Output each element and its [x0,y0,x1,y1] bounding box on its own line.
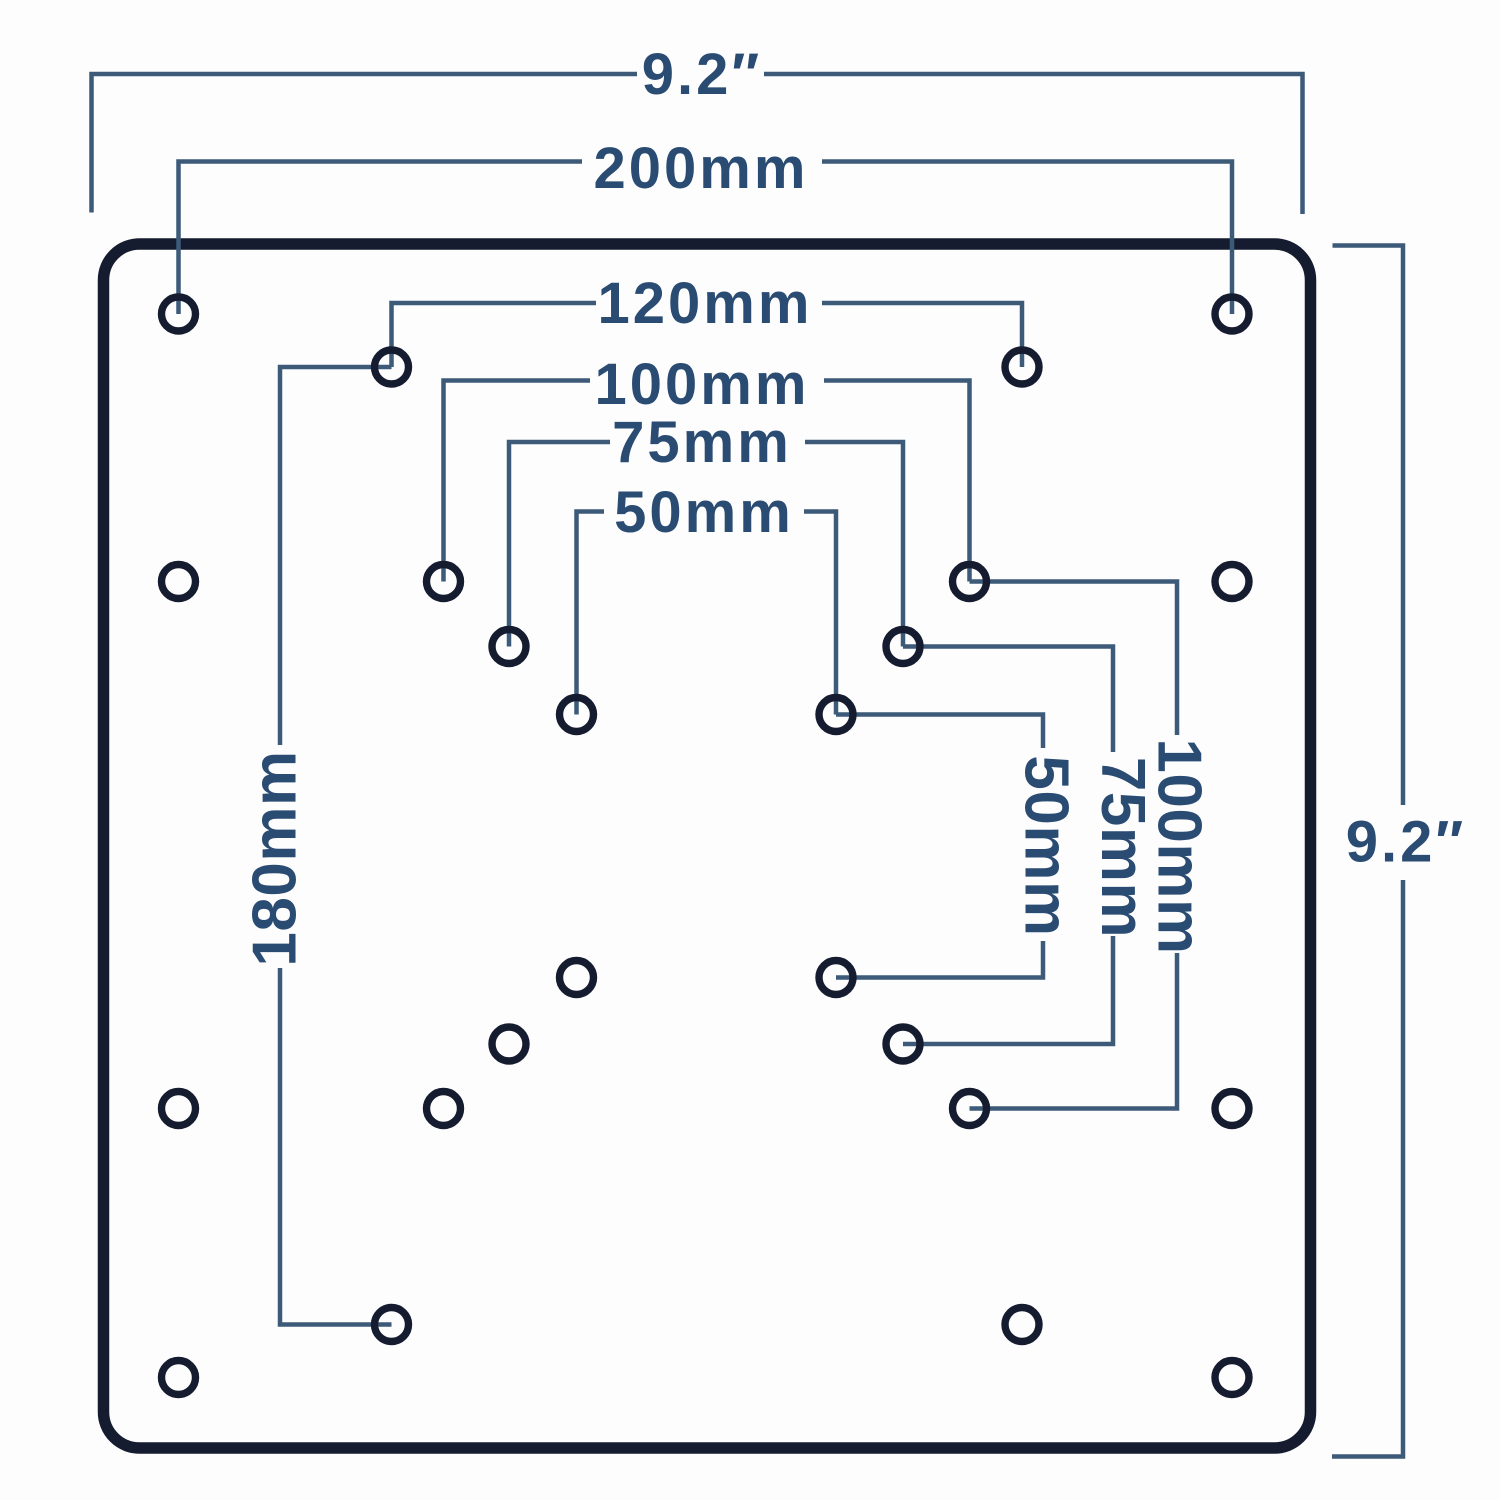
dimension 100mm top: line right segment [824,381,970,582]
hole 100 pattern bottom-right [953,1092,987,1126]
dimension 75mm right: bottom segment [903,936,1113,1044]
svg-text:50mm: 50mm [614,480,794,545]
dimension 120mm: line right segment [822,303,1022,367]
hole 120 pattern top-right [1005,350,1039,384]
plate outline (rounded square) [104,244,1311,1448]
dimension 100mm right: top segment [970,582,1178,1109]
hole 50 pattern top-left [560,698,594,732]
dimension 200mm top: line right segment [822,162,1232,315]
dimension 9.2 inch top: line left segment [92,74,1303,214]
hole 75 pattern top-left [492,630,526,664]
svg-text:120mm: 120mm [598,271,813,336]
hole 75 pattern top-right [886,630,920,664]
dimension 75mm right: top segment [903,647,1113,1045]
dimension 9.2 inch right: top segment [1332,246,1403,1457]
hole 100 pattern top-left [427,565,461,599]
dimension 9.2 inch right: bottom segment [1332,880,1403,1457]
dimension 180mm left: top segment from 120mm hole [280,367,392,1325]
hole 120 pattern bottom-right [1005,1308,1039,1342]
svg-text:100mm: 100mm [1145,738,1214,954]
hole 200 pattern bottom-left [162,1361,196,1395]
hole 120 pattern top-left [375,350,409,384]
dimension 75mm top: line left segment [509,442,903,647]
dimension 50mm top: line right segment [804,512,836,715]
hole 50 pattern top-right [819,698,853,732]
hole right column row2 [1215,565,1249,599]
svg-text:9.2″: 9.2″ [642,42,762,107]
svg-text:100mm: 100mm [595,352,810,417]
hole 50 pattern bottom-left [560,961,594,995]
hole right column row3 [1215,1092,1249,1126]
hole 120 pattern bottom-left [375,1308,409,1342]
hole 200 pattern bottom-right [1215,1361,1249,1395]
svg-text:200mm: 200mm [594,136,809,201]
svg-text:9.2″: 9.2″ [1346,810,1466,875]
dimension 50mm top: line left segment [577,512,837,715]
dimension 180mm left: bottom segment to bottom 120mm hole [280,968,392,1325]
dimension 100mm top: line left segment [444,381,970,582]
holes: VESA 200 corner columns [162,297,1250,1395]
svg-text:50mm: 50mm [1012,755,1081,936]
hole left column row3 [162,1092,196,1126]
hole 200 pattern top-left [162,297,196,331]
hole 75 pattern bottom-right [886,1027,920,1061]
hole 200 pattern top-right [1215,297,1249,331]
hole left column row2 [162,565,196,599]
hole 50 pattern bottom-right [819,961,853,995]
hole 100 pattern top-right [953,565,987,599]
dimension 9.2 inch top: line right segment [764,74,1303,214]
svg-text:75mm: 75mm [612,410,792,475]
svg-text:180mm: 180mm [241,750,310,966]
dimension 50mm right: top segment [836,715,1043,978]
dimension 200mm top: line left segment [179,162,1233,315]
hole 100 pattern bottom-left [427,1092,461,1126]
dimension 100mm right: bottom segment [970,953,1178,1109]
dimension 50mm right: bottom segment [836,941,1043,978]
dimension 120mm: line left segment [392,303,1023,367]
dimension 75mm top: line right segment [805,442,903,647]
hole 75 pattern bottom-left [492,1027,526,1061]
